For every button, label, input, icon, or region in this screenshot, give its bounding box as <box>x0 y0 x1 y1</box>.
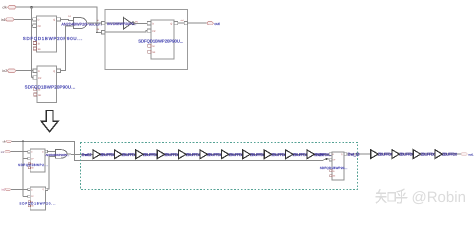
critical path highlight box <box>81 143 358 190</box>
input port clk (bottom) <box>3 140 12 143</box>
module pin out <box>184 22 187 25</box>
svg-text:SDFQD1BWP20P90U...: SDFQD1BWP20P90U... <box>23 36 83 41</box>
input port in1 (bottom) <box>1 151 11 154</box>
wire in1 to U1.D <box>14 18 33 20</box>
junction clk-module corner <box>96 31 98 33</box>
U1 pin D <box>33 18 37 21</box>
wire U1.Q to U2.A1 <box>60 19 73 20</box>
U3 pin Q <box>57 69 61 72</box>
U3 pin SE <box>34 93 37 96</box>
svg-text:SE: SE <box>152 51 156 54</box>
U1 pin Q <box>57 18 61 21</box>
wire clk vertical (bottom) <box>23 141 28 196</box>
svg-text:Znet12: Znet12 <box>82 153 92 157</box>
U5 pin name labels <box>152 22 172 54</box>
U3 pin D <box>33 69 37 72</box>
flip-flop U3 SDFQD1 body <box>37 66 57 103</box>
buffer B11 <box>307 150 314 159</box>
flip-flop U6 SDFQD1 body <box>30 149 45 172</box>
svg-text:Q: Q <box>53 70 55 73</box>
wire clk vertical to FF clocks <box>32 7 34 77</box>
U9 pin SE <box>330 175 332 177</box>
svg-text:SDFQD1BWP20P90U...: SDFQD1BWP20P90U... <box>25 85 76 90</box>
U5 pin SE <box>148 50 151 53</box>
svg-text:SDFQD1BWP20...: SDFQD1BWP20... <box>320 166 348 170</box>
U6 pin SI <box>28 163 30 165</box>
wire U7.Q up to U8.A2 <box>48 156 56 189</box>
U6 pin Q <box>45 150 48 152</box>
and-gate U2 AN2D4 <box>73 18 86 29</box>
svg-text:out: out <box>181 19 184 22</box>
output port out <box>207 22 221 26</box>
U9 pin CP <box>329 159 332 161</box>
svg-text:SDFQD1BWP20...: SDFQD1BWP20... <box>19 201 56 205</box>
module pin tick labels <box>96 19 184 31</box>
input port in2 (bottom) <box>2 188 11 192</box>
flip-flop U1 SDFQD1 body <box>36 16 56 52</box>
input port in2 <box>2 69 16 73</box>
buffer B14 <box>413 150 420 159</box>
wire in2 to U7.D <box>11 188 28 190</box>
input port clk <box>2 6 16 10</box>
U6 pin CP <box>28 157 31 159</box>
svg-text:SDFQD1BWP2...: SDFQD1BWP2... <box>18 163 48 167</box>
U4 bubble <box>132 22 135 25</box>
svg-text:INVD6BWP20P9...: INVD6BWP20P9... <box>107 22 136 26</box>
wire U2.Z to module pin <box>87 22 102 24</box>
svg-text:Znet_13: Znet_13 <box>348 153 360 157</box>
U9 pin SI <box>330 170 332 172</box>
U7 pin SI <box>28 201 30 203</box>
buffer B13 <box>392 150 399 159</box>
down arrow <box>41 111 58 132</box>
wire U3.Q up to U2.A2 <box>60 26 73 70</box>
wire clk to retimed FF clock <box>12 141 330 160</box>
svg-text:@Robin: @Robin <box>412 189 466 206</box>
and-gate U8 AN2D4 (bottom) <box>56 150 67 159</box>
U1 pin CP <box>33 24 37 27</box>
svg-text:in1: in1 <box>1 151 5 154</box>
svg-text:ZN: ZN <box>135 21 138 24</box>
U9 pin name labels <box>333 153 343 178</box>
module pin data-in <box>102 22 105 25</box>
wire buffer chain net <box>93 153 329 155</box>
svg-text:clk: clk <box>2 6 7 10</box>
wire U6.Q to U8.A1 <box>47 150 55 152</box>
svg-text:CP: CP <box>38 77 42 80</box>
svg-text:SE: SE <box>38 48 42 51</box>
svg-text:ZBUFFD0: ZBUFFD0 <box>442 153 457 157</box>
U7 pin SE <box>28 205 30 207</box>
buffer B7 <box>221 150 228 159</box>
buffer B2 <box>114 150 121 159</box>
watermark zhihu glyph 知 <box>376 190 395 203</box>
svg-text:CP: CP <box>38 25 42 28</box>
input port in1 <box>1 18 14 22</box>
svg-text:D: D <box>38 19 40 22</box>
U6 pin D <box>28 151 31 153</box>
buffer B15 <box>435 150 442 159</box>
watermark zhihu glyph 乎 <box>396 189 407 203</box>
svg-text:in2: in2 <box>2 69 7 73</box>
U1 pin SI <box>33 42 36 45</box>
U6 pin SE <box>28 167 30 169</box>
U3 pin name labels <box>38 70 55 97</box>
U3 pin CP <box>33 76 37 79</box>
U9 pin Q <box>344 153 347 155</box>
U5 pin D <box>147 22 151 25</box>
buffer B1 <box>93 150 100 159</box>
buffer B8 <box>243 150 250 159</box>
buffer B3 <box>136 150 143 159</box>
U7 pin name labels <box>31 188 44 208</box>
buffer B9 <box>264 150 271 159</box>
output port out (bottom) <box>461 153 474 157</box>
wire U9.Q to output buffers <box>347 153 461 155</box>
buffer B12 <box>371 150 378 159</box>
U1 pin SE <box>33 47 36 50</box>
flip-flop U7 SDFQD1 body <box>30 187 45 210</box>
flip-flop U9 SDFQD1 body (retimed) <box>332 152 344 180</box>
svg-text:out1: out1 <box>468 153 474 156</box>
buffer B10 <box>286 150 293 159</box>
buffer B6 <box>200 150 207 159</box>
buffer B5 <box>179 150 186 159</box>
wire U5.Q to module edge <box>178 22 185 24</box>
junction at U9 clock <box>326 158 328 160</box>
svg-text:SI: SI <box>38 42 41 45</box>
U5 pin SI <box>148 44 151 47</box>
wire module out to port <box>188 22 207 24</box>
svg-text:Q: Q <box>170 22 172 25</box>
wire clk horizontal to module <box>16 7 101 32</box>
wire in2 to U3.D <box>16 70 33 72</box>
svg-text:in1: in1 <box>1 18 6 22</box>
junction clk (bottom) <box>22 140 24 142</box>
inverter U4 INVD6 <box>124 18 132 29</box>
U6 pin name labels <box>31 150 44 169</box>
svg-text:CP: CP <box>152 30 156 33</box>
U3 pin SI <box>34 88 37 91</box>
U7 pin Q <box>45 188 48 190</box>
buffer B4 <box>157 150 164 159</box>
module box (hierarchy block) <box>105 10 188 70</box>
svg-text:SDFQD1BWP20P90U...: SDFQD1BWP20P90U... <box>138 39 183 44</box>
junction clk <box>30 6 33 9</box>
wire module pin to inverter <box>105 22 124 24</box>
wire U4 to U5.D <box>134 22 147 24</box>
U5 pin Q <box>174 21 178 24</box>
wire in1 to U6.D <box>10 151 27 153</box>
U5 pin CP <box>147 29 151 32</box>
wire module clk pin to U5.CP <box>105 31 147 33</box>
svg-text:SE: SE <box>38 94 42 97</box>
svg-text:D: D <box>38 70 40 73</box>
U1 pin name labels <box>38 19 56 51</box>
svg-text:D: D <box>152 23 154 26</box>
U7 pin D <box>28 188 31 190</box>
U7 pin CP <box>28 195 31 197</box>
wire U8.Z to buffer chain <box>67 153 93 156</box>
svg-text:Q: Q <box>53 19 55 22</box>
module pin clk-in <box>102 31 105 34</box>
U9 pin D <box>329 153 332 155</box>
svg-text:SI: SI <box>152 45 155 48</box>
flip-flop U5 SDFQD1 body <box>151 20 174 59</box>
